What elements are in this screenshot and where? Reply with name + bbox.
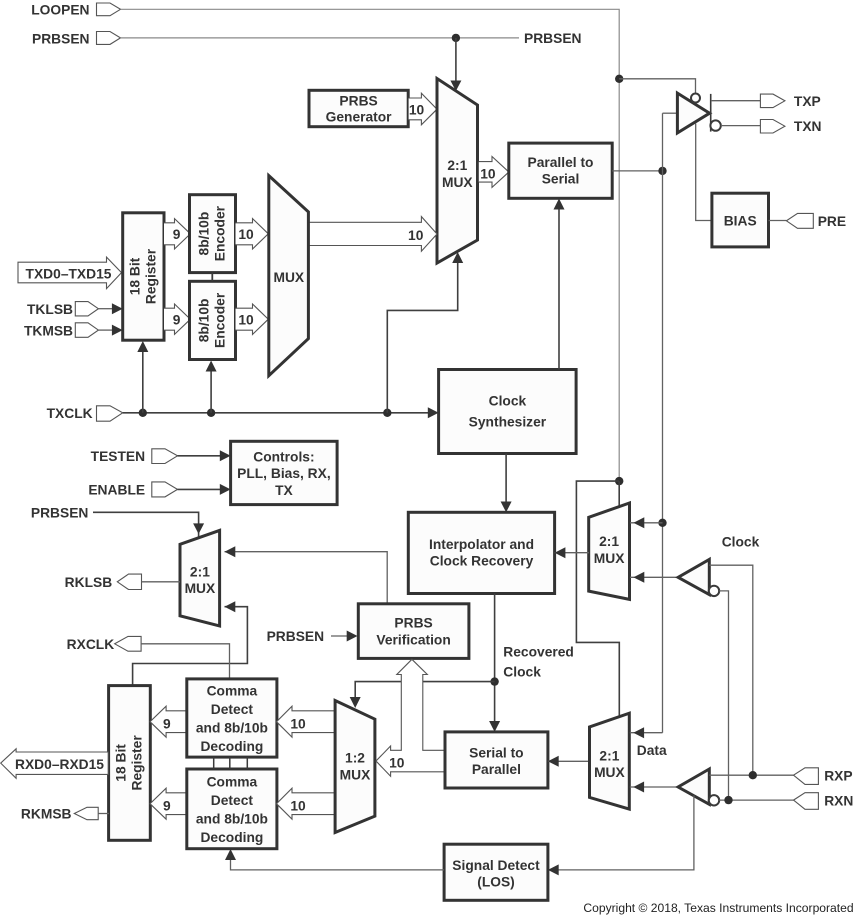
wire loopback vertical xyxy=(662,113,664,733)
svg-text:1:2: 1:2 xyxy=(345,751,365,766)
svg-text:PRBSEN: PRBSEN xyxy=(524,31,582,46)
wire interpolator to serial-to-parallel clock xyxy=(489,594,500,732)
svg-text:10: 10 xyxy=(409,103,425,118)
wire PRBSEN to mux select xyxy=(455,38,457,81)
svg-text:8b/10b: 8b/10b xyxy=(197,212,212,256)
input port LOOPEN xyxy=(31,2,120,17)
output port RKLSB xyxy=(65,574,142,590)
svg-text:Generator: Generator xyxy=(326,110,393,125)
wire clock to encoder xyxy=(206,361,217,413)
box Clock Synthesizer xyxy=(439,370,576,454)
wire synthesizer to Interpolator xyxy=(501,454,512,513)
mux U-CLKMUX 2:1 MUX xyxy=(589,503,630,599)
output port TXN xyxy=(760,119,821,134)
wire TXCLK net xyxy=(123,412,429,414)
input port RXP xyxy=(794,768,853,785)
svg-text:RXP: RXP xyxy=(824,768,852,783)
wire data buffer to data mux xyxy=(630,782,678,793)
wire loopback into clock mux xyxy=(630,517,663,528)
svg-text:Decoding: Decoding xyxy=(200,739,263,754)
svg-text:Decoding: Decoding xyxy=(200,830,263,845)
wire encoder A to encoder B link xyxy=(211,273,213,282)
svg-text:10: 10 xyxy=(290,716,306,731)
wire signal detect to comma B xyxy=(225,849,444,870)
bus arrow RXD0-RXD15 output xyxy=(1,749,109,779)
wire data mux to serial-to-parallel xyxy=(548,756,590,767)
junction recovered clock branch xyxy=(490,677,498,685)
svg-text:TXN: TXN xyxy=(794,119,822,134)
svg-text:PLL, Bias, RX,: PLL, Bias, RX, xyxy=(237,466,331,481)
svg-text:PRBSEN: PRBSEN xyxy=(31,506,89,521)
wire PRBSEN net xyxy=(121,37,520,39)
bubble driver enable xyxy=(691,94,700,103)
input port PRBSEN xyxy=(32,31,121,46)
svg-text:TKLSB: TKLSB xyxy=(27,302,73,317)
bus arrow 9 register to encoder A xyxy=(164,219,190,249)
svg-text:TXP: TXP xyxy=(794,94,821,109)
mux U-12MUX 1:2 MUX xyxy=(335,701,375,833)
wire driver to BIAS xyxy=(696,124,712,221)
svg-text:Comma: Comma xyxy=(207,684,258,699)
svg-text:and 8b/10b: and 8b/10b xyxy=(196,812,268,827)
box Signal Detect xyxy=(444,844,548,900)
bus arrow 10 2:1 MUX to Parallel to Serial xyxy=(479,157,509,188)
svg-text:MUX: MUX xyxy=(185,581,216,596)
bus arrow 9 register to encoder B xyxy=(164,304,190,334)
wire TKLSB to register xyxy=(98,303,122,314)
box Comma Detect B xyxy=(187,769,277,849)
box Parallel to Serial xyxy=(509,143,612,198)
bus arrow 9 comma B to register xyxy=(150,788,187,819)
bus arrow TXD0-TXD15 input xyxy=(18,257,122,289)
wire PRBSEN to PRBS Verification xyxy=(331,631,358,642)
junction PRBSEN branch xyxy=(452,34,460,42)
output port RXCLK xyxy=(67,636,141,652)
box BIAS xyxy=(712,193,769,247)
svg-text:Register: Register xyxy=(130,735,145,791)
wire comma box links xyxy=(214,757,248,769)
svg-text:MUX: MUX xyxy=(273,270,304,285)
junction TXCLK register branch xyxy=(139,409,147,417)
svg-text:2:1: 2:1 xyxy=(599,534,619,549)
svg-text:Comma: Comma xyxy=(207,775,258,790)
bus arrow 10 1:2 mux to comma A xyxy=(277,706,336,737)
svg-text:Encoder: Encoder xyxy=(213,292,228,348)
svg-text:PRBS: PRBS xyxy=(339,94,377,109)
svg-text:MUX: MUX xyxy=(340,767,371,782)
input port TESTEN xyxy=(91,449,178,464)
wire RK mux to RKLSB xyxy=(142,581,181,583)
wire select into clock mux xyxy=(618,481,620,506)
wire PRBSEN to RK mux select xyxy=(93,512,204,537)
register RX 18 Bit Register xyxy=(109,686,151,841)
mux U-DATAMUX 2:1 MUX xyxy=(590,713,630,809)
svg-text:Clock: Clock xyxy=(489,393,527,408)
wire RXCLK net xyxy=(141,644,229,679)
svg-text:10: 10 xyxy=(480,166,496,181)
bus arrow 10 encoder B to MUX xyxy=(236,304,269,334)
box Comma Detect A xyxy=(187,679,277,757)
wire LOOPEN to driver enable xyxy=(619,79,695,94)
svg-text:Copyright © 2018, Texas Instru: Copyright © 2018, Texas Instruments Inco… xyxy=(583,901,853,915)
bubble data buffer invert xyxy=(709,795,719,805)
svg-text:2:1: 2:1 xyxy=(190,564,210,579)
bubble TXN invert xyxy=(710,120,720,130)
svg-text:MUX: MUX xyxy=(594,765,625,780)
junction TXCLK mux branch xyxy=(383,409,391,417)
svg-text:TXD0–TXD15: TXD0–TXD15 xyxy=(26,266,112,281)
mux U-RKMUX 2:1 MUX xyxy=(180,530,220,626)
output port TXP xyxy=(760,94,820,109)
svg-text:Data: Data xyxy=(637,743,667,758)
svg-text:Clock Recovery: Clock Recovery xyxy=(430,553,534,568)
wire BIAS to PRE xyxy=(769,220,787,222)
input port TXCLK xyxy=(47,406,123,421)
wire recovered clock to 1:2 mux select xyxy=(350,682,495,708)
svg-text:10: 10 xyxy=(238,227,254,242)
svg-text:TKMSB: TKMSB xyxy=(24,323,73,338)
svg-text:MUX: MUX xyxy=(594,551,625,566)
junction clock select branch xyxy=(615,477,623,485)
svg-text:RKMSB: RKMSB xyxy=(21,807,72,822)
bus arrow 10 PRBS Generator to 2:1 MUX xyxy=(409,93,437,125)
wire RXP to clock buffer xyxy=(709,565,753,775)
wire ENABLE to Controls xyxy=(178,484,231,495)
wire RXN to clock buffer bubble xyxy=(719,591,728,800)
bus arrow 10 MUX to 2:1 MUX xyxy=(308,217,437,252)
wire clock to register xyxy=(137,341,148,413)
svg-text:Clock: Clock xyxy=(503,664,541,679)
input port RXN xyxy=(794,793,854,810)
junction RXN branch xyxy=(724,796,732,804)
junction loopback to clock mux xyxy=(658,519,666,527)
svg-text:8b/10b: 8b/10b xyxy=(197,299,212,343)
wire serial out to loopback xyxy=(612,170,662,172)
box Interpolator and Clock Recovery xyxy=(408,512,554,593)
svg-text:Interpolator and: Interpolator and xyxy=(429,537,534,552)
svg-text:PRE: PRE xyxy=(818,214,846,229)
svg-text:Encoder: Encoder xyxy=(213,205,228,261)
input port TKLSB xyxy=(27,302,98,317)
wire loopback into data mux xyxy=(630,727,663,738)
svg-text:RXCLK: RXCLK xyxy=(67,637,115,652)
box 8b/10b Encoder B xyxy=(190,281,236,359)
wire LOOPEN net xyxy=(121,9,620,481)
svg-text:10: 10 xyxy=(290,798,306,813)
wire TKMSB to register xyxy=(98,325,122,336)
svg-text:18 Bit: 18 Bit xyxy=(114,744,129,782)
bus arrow 10 encoder A to MUX xyxy=(236,219,269,249)
svg-text:18 Bit: 18 Bit xyxy=(127,257,142,295)
wire RXN net xyxy=(719,799,793,801)
box PRBS Verification xyxy=(358,604,469,659)
buffer TX output driver xyxy=(677,93,709,133)
wire RKMSB to register xyxy=(98,813,109,815)
svg-text:Register: Register xyxy=(143,248,158,304)
wire data buffer to signal detect xyxy=(548,796,694,876)
svg-text:Synthesizer: Synthesizer xyxy=(469,414,547,429)
wire clock buffer to clock mux xyxy=(630,572,678,583)
box Controls xyxy=(231,441,338,504)
svg-text:Detect: Detect xyxy=(211,793,254,808)
svg-text:9: 9 xyxy=(163,716,171,731)
svg-text:9: 9 xyxy=(173,313,181,328)
svg-text:ENABLE: ENABLE xyxy=(88,483,145,498)
arrowhead into Clock Synthesizer xyxy=(428,407,439,418)
wire clock to 2:1 MUX xyxy=(387,252,463,413)
svg-text:(LOS): (LOS) xyxy=(477,874,515,889)
wire TESTEN to Controls xyxy=(178,450,231,461)
svg-text:PRBSEN: PRBSEN xyxy=(267,629,325,644)
svg-text:2:1: 2:1 xyxy=(447,158,467,173)
junction RXP branch xyxy=(749,771,757,779)
svg-text:9: 9 xyxy=(173,227,181,242)
svg-text:10: 10 xyxy=(389,755,405,770)
buffer data input xyxy=(678,769,709,804)
svg-text:TXCLK: TXCLK xyxy=(47,406,93,421)
junction TXCLK encoder branch xyxy=(207,409,215,417)
buffer clock input xyxy=(678,559,709,594)
svg-text:LOOPEN: LOOPEN xyxy=(31,2,89,17)
bus arrow 9 comma A to register xyxy=(150,706,187,737)
svg-text:RXD0–RXD15: RXD0–RXD15 xyxy=(15,757,104,772)
svg-text:Verification: Verification xyxy=(376,632,450,647)
input port PRE xyxy=(786,213,846,229)
wire RXP net xyxy=(709,774,793,776)
svg-text:Detect: Detect xyxy=(211,702,254,717)
box PRBS Generator xyxy=(309,90,408,126)
wire TX output bar xyxy=(710,94,712,132)
svg-text:Parallel to: Parallel to xyxy=(528,155,594,170)
svg-text:10: 10 xyxy=(408,228,424,243)
box 8b/10b Encoder A xyxy=(190,195,236,273)
wire TX driver input xyxy=(663,112,677,114)
svg-text:10: 10 xyxy=(238,313,254,328)
bubble clock buffer invert xyxy=(709,586,719,596)
register TX 18 Bit Register xyxy=(123,213,164,340)
svg-text:MUX: MUX xyxy=(442,175,473,190)
bus arrow 10 1:2 mux to comma B xyxy=(277,788,336,819)
junction LOOPEN branch xyxy=(615,75,623,83)
mux U-TXBIGMUX MUX xyxy=(269,176,309,376)
input port TKMSB xyxy=(24,323,98,339)
bus arrow 10 serial-to-parallel to 1:2 mux with PRBS branch xyxy=(376,659,445,776)
svg-text:TESTEN: TESTEN xyxy=(91,449,145,464)
svg-text:RKLSB: RKLSB xyxy=(65,575,113,590)
svg-text:Serial: Serial xyxy=(542,172,580,187)
wire clock mux to interpolator xyxy=(555,547,589,558)
svg-text:Parallel: Parallel xyxy=(472,762,521,777)
svg-text:and 8b/10b: and 8b/10b xyxy=(196,721,268,736)
svg-text:PRBSEN: PRBSEN xyxy=(32,31,90,46)
svg-text:9: 9 xyxy=(163,798,171,813)
wire recovered clock to RK mux top input xyxy=(225,546,388,604)
svg-text:Serial to: Serial to xyxy=(469,746,523,761)
wire synthesizer to Parallel to Serial xyxy=(554,199,565,370)
wire select detour to data mux xyxy=(576,481,619,716)
wire RX register clock to RK mux bottom input xyxy=(133,601,248,685)
svg-text:Recovered: Recovered xyxy=(503,644,574,659)
wire TXP xyxy=(711,100,761,102)
svg-text:RXN: RXN xyxy=(824,793,853,808)
svg-text:Controls:: Controls: xyxy=(253,449,314,464)
junction serial loopback xyxy=(658,167,666,175)
svg-text:TX: TX xyxy=(275,483,293,498)
svg-text:2:1: 2:1 xyxy=(599,748,619,763)
wire TXN xyxy=(721,125,761,127)
node Recovered Clock label xyxy=(503,644,574,679)
svg-text:PRBS: PRBS xyxy=(394,615,432,630)
input port ENABLE xyxy=(88,482,177,498)
output port RKMSB xyxy=(21,807,98,822)
svg-text:Signal Detect: Signal Detect xyxy=(452,858,540,873)
mux U-TXMUX 2:1 MUX xyxy=(437,79,478,264)
svg-text:Clock: Clock xyxy=(722,534,760,549)
svg-text:BIAS: BIAS xyxy=(724,213,757,228)
box Serial to Parallel xyxy=(445,732,548,788)
